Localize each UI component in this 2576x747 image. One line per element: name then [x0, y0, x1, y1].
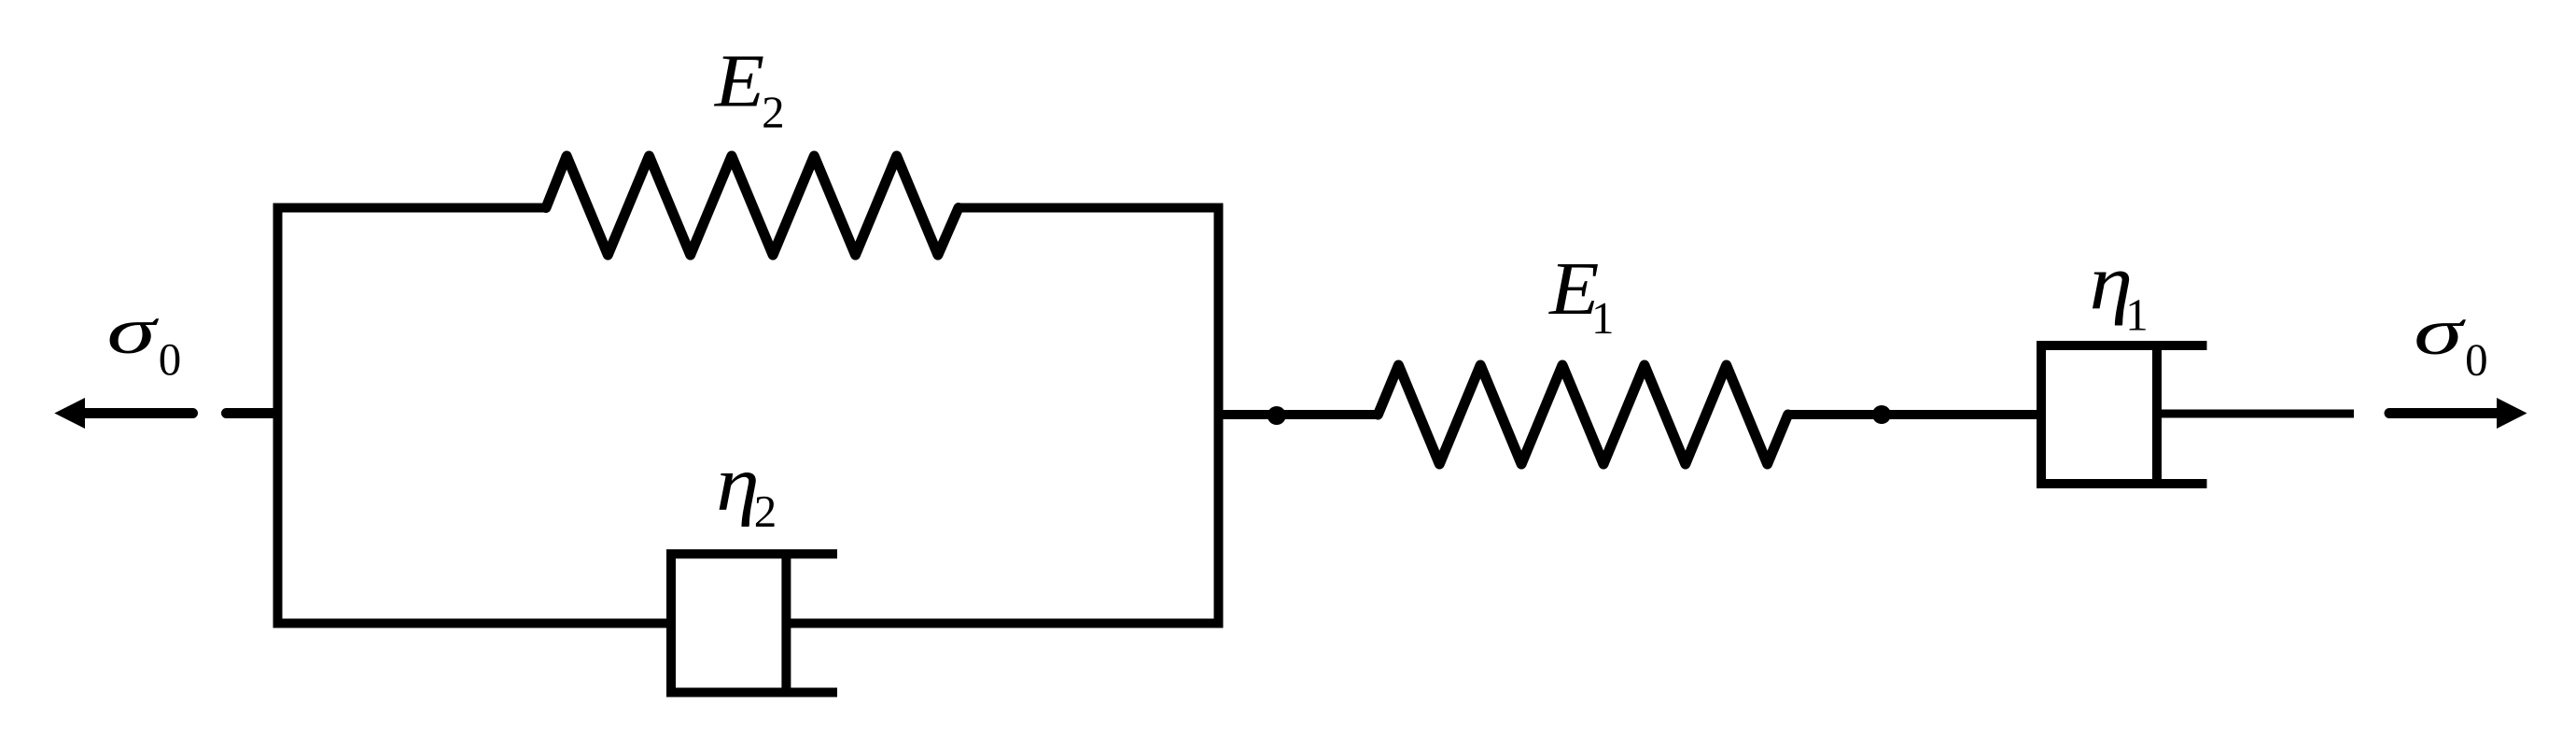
- wire: loop to spring E1: [1219, 410, 1379, 419]
- dashpot eta1 piston plate: [2152, 346, 2162, 484]
- wire: bottom branch left lead: [273, 619, 672, 628]
- svg-text:1: 1: [1591, 292, 1615, 344]
- arrow sigma0 left: shaft: [85, 408, 193, 418]
- wire: spring E1 to dashpot eta1: [1788, 410, 2046, 419]
- svg-text:σ: σ: [106, 293, 159, 368]
- svg-text:2: 2: [762, 86, 785, 137]
- svg-text:σ: σ: [2414, 294, 2466, 369]
- svg-text:η: η: [716, 440, 759, 528]
- spring E1 zigzag: [1378, 365, 1787, 464]
- svg-text:1: 1: [2125, 289, 2149, 340]
- arrow sigma0 right: shaft: [2389, 408, 2498, 418]
- wire: bottom branch right lead (piston rod): [786, 619, 1223, 628]
- wire: top branch left lead: [273, 204, 547, 213]
- svg-text:0: 0: [159, 333, 182, 385]
- wire: top branch right lead: [959, 204, 1224, 213]
- node: Kelvin loop right vertical wire: [1214, 204, 1224, 628]
- dashpot eta1 cylinder cup: [2041, 345, 2207, 484]
- wire: left stub into Kelvin loop: [227, 408, 277, 418]
- dashpot eta2 piston plate: [781, 555, 791, 692]
- arrow sigma0 right: head: [2497, 398, 2527, 429]
- arrow sigma0 left: head: [54, 398, 85, 429]
- node A junction dot: [1267, 406, 1286, 425]
- wire: piston rod out of eta1: [2157, 410, 2354, 418]
- svg-text:0: 0: [2465, 334, 2488, 386]
- node: Kelvin loop left vertical wire: [273, 204, 283, 628]
- spring E2 zigzag: [546, 156, 959, 255]
- dashpot eta2 cylinder cup: [671, 554, 837, 692]
- svg-text:E: E: [714, 40, 764, 123]
- svg-text:2: 2: [754, 486, 777, 537]
- node B junction dot: [1872, 405, 1891, 424]
